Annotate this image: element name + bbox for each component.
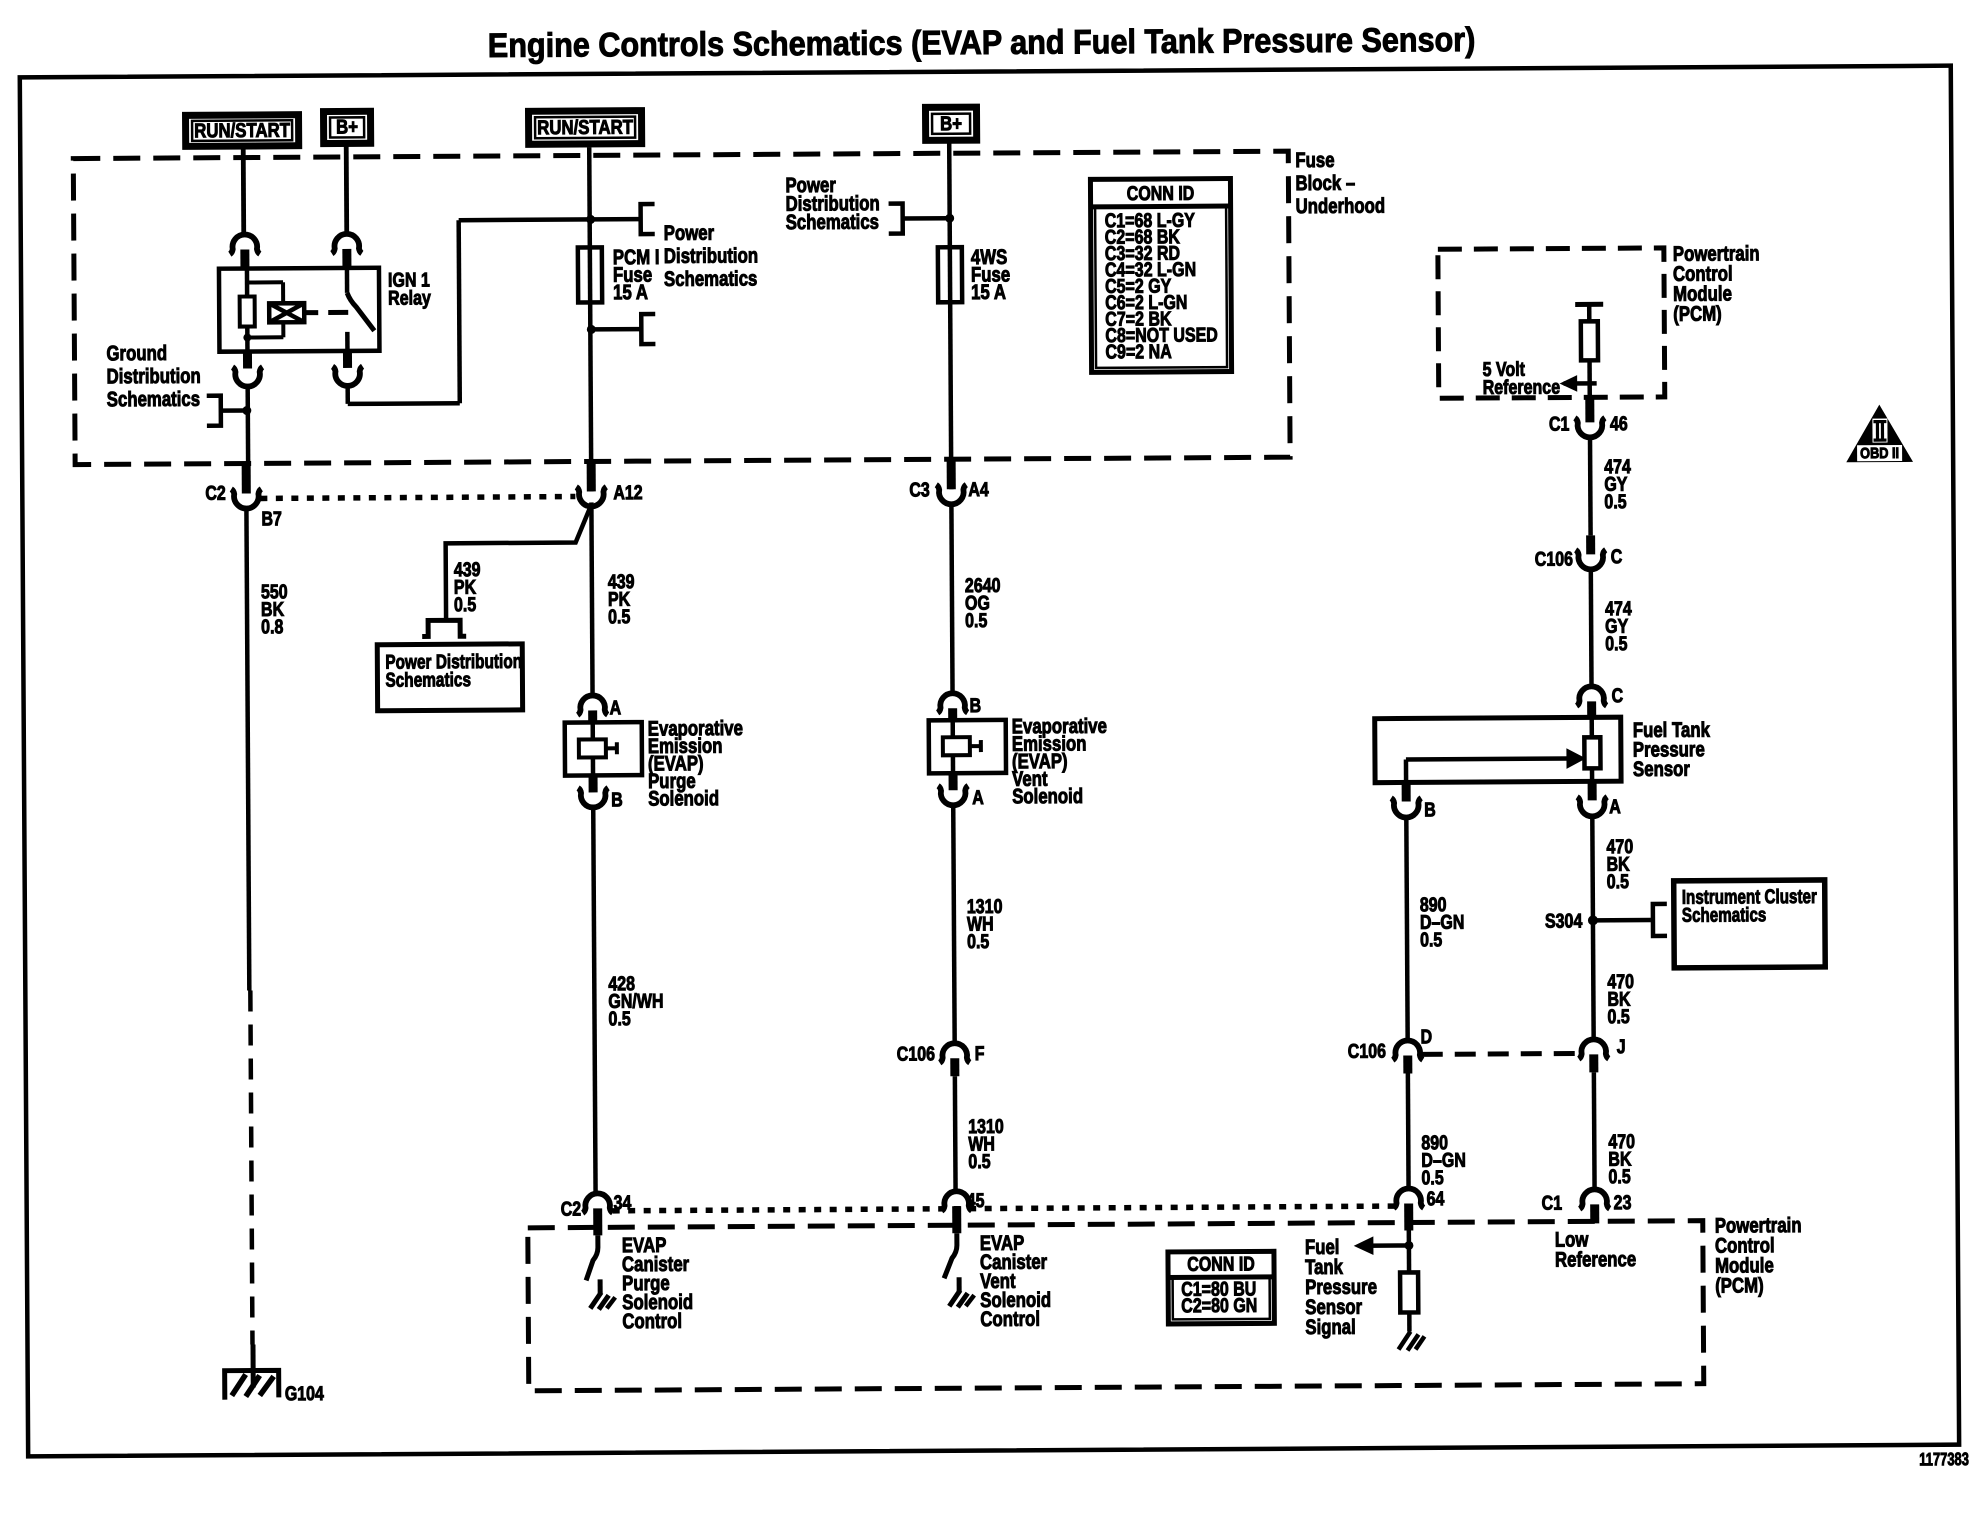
5 Volt Reference arrow <box>1564 381 1597 386</box>
wire relay B+ pin loop to PCM fuse feed <box>345 384 350 404</box>
EVAP canister vent solenoid control switch in PCM <box>944 1233 957 1278</box>
wire B+ (center) down through 4WS fuse <box>949 143 951 489</box>
svg-text:A: A <box>610 697 622 719</box>
svg-text:CONN ID: CONN ID <box>1127 182 1195 204</box>
connector C2 / 34 into PCM <box>583 1193 613 1213</box>
Powertrain Control Module (PCM) dashed box bottom <box>528 1221 1704 1391</box>
wire 474 GY lower <box>1589 567 1594 686</box>
connector C106 / D <box>1393 1040 1423 1060</box>
svg-text:RUN/START: RUN/START <box>194 118 291 141</box>
wire relay left pin down to fuse block edge <box>245 385 250 466</box>
staple connector into box <box>422 620 466 636</box>
svg-text:(PCM): (PCM) <box>1715 1275 1764 1298</box>
connector C1 / 23 into PCM <box>1580 1189 1610 1209</box>
svg-text:A12: A12 <box>613 481 642 503</box>
svg-text:G104: G104 <box>285 1382 324 1404</box>
svg-text:C106: C106 <box>1348 1040 1386 1062</box>
off-page bracket upper right of relay <box>641 204 655 234</box>
connector arc B below sensor <box>1402 783 1411 801</box>
EVAP purge solenoid box <box>565 722 642 775</box>
wire RUN/START (center) down through fuse <box>589 147 591 491</box>
dashed link C106 D to J <box>1422 1051 1580 1057</box>
connector arcs below relay <box>243 352 252 369</box>
svg-text:D: D <box>1421 1026 1433 1048</box>
power tag RUN/START (center) <box>529 111 642 145</box>
svg-text:A: A <box>972 786 984 808</box>
connector 64 into PCM <box>1394 1188 1424 1208</box>
svg-text:A: A <box>1609 796 1621 818</box>
svg-text:0.5: 0.5 <box>608 606 630 628</box>
svg-text:C1: C1 <box>1549 413 1570 435</box>
purge solenoid coil symbol <box>579 739 606 757</box>
lower off-page bracket from RUN/START column <box>591 327 641 332</box>
wire 470 BK from sensor A to S304 <box>1592 814 1593 1040</box>
ground inside PCM (purge driver) <box>598 1279 603 1293</box>
svg-text:CONN ID: CONN ID <box>1187 1253 1255 1275</box>
svg-text:Underhood: Underhood <box>1296 195 1386 219</box>
svg-text:1177383: 1177383 <box>1919 1450 1969 1470</box>
svg-text:Fuse: Fuse <box>1295 149 1334 172</box>
connector arc B below purge solenoid <box>589 775 598 792</box>
svg-text:Engine Controls Schematics (EV: Engine Controls Schematics (EVAP and Fue… <box>488 21 1476 65</box>
wire 1310 WH lower segment <box>953 1076 958 1192</box>
svg-text:0.5: 0.5 <box>1607 1005 1629 1027</box>
Fuse Block - Underhood dashed box <box>73 151 1290 464</box>
connector C1 / 46 <box>1585 399 1594 422</box>
connector arc A below sensor <box>1588 782 1597 800</box>
svg-text:B+: B+ <box>940 112 962 135</box>
svg-text:0.5: 0.5 <box>454 593 476 615</box>
ground G104 symbol <box>250 1345 255 1388</box>
off-page bracket to Power Distribution (top center) <box>889 204 903 234</box>
svg-text:C106: C106 <box>1535 548 1573 570</box>
svg-text:C9=2 NA: C9=2 NA <box>1105 340 1171 362</box>
svg-text:0.5: 0.5 <box>965 609 987 631</box>
svg-text:Control: Control <box>622 1310 682 1334</box>
Powertrain Control Module (PCM) dashed box top <box>1438 248 1665 398</box>
svg-text:0.5: 0.5 <box>1608 1165 1630 1187</box>
wire 474 GY upper <box>1588 435 1593 535</box>
svg-text:Schematics: Schematics <box>786 211 879 235</box>
svg-text:Reference: Reference <box>1555 1248 1636 1272</box>
Power Distribution Schematics box <box>377 644 522 711</box>
relay winding symbol (box with X) <box>269 303 304 322</box>
svg-text:15 A: 15 A <box>971 281 1006 304</box>
svg-text:0.5: 0.5 <box>1604 490 1626 512</box>
wire 1310 WH upper segment <box>953 803 954 1044</box>
5V supply tee bar <box>1575 302 1603 307</box>
pull-down resistor in PCM <box>1400 1272 1418 1312</box>
connector C2 / B7 at fuse block <box>242 466 251 494</box>
connector 45 into PCM <box>942 1191 972 1211</box>
4WS fuse 15 A <box>938 247 962 302</box>
svg-text:RUN/START: RUN/START <box>537 115 634 138</box>
connector arc A below vent solenoid <box>949 773 958 790</box>
svg-text:A4: A4 <box>968 478 989 500</box>
svg-text:B: B <box>970 694 982 716</box>
wire 428 GN/WH down <box>593 805 595 1194</box>
svg-text:0.5: 0.5 <box>1420 929 1442 951</box>
hidden wire segment to G104 (dashed) <box>250 991 252 1345</box>
CONN ID table (fuse block) <box>1090 179 1231 373</box>
ground inside PCM (signal) <box>1407 1312 1412 1331</box>
svg-text:Power: Power <box>664 222 715 245</box>
wire 470 BK lower <box>1592 1072 1597 1190</box>
svg-text:(PCM): (PCM) <box>1673 303 1722 326</box>
svg-text:C2=80 GN: C2=80 GN <box>1181 1294 1257 1317</box>
svg-text:C2: C2 <box>561 1198 582 1220</box>
fuel tank pressure sensor signal wire in PCM <box>1407 1230 1412 1272</box>
svg-text:C1: C1 <box>1542 1192 1563 1214</box>
relay actuator dashed link <box>304 310 318 315</box>
svg-text:Relay: Relay <box>388 287 431 309</box>
wire 890 D-GN lower <box>1406 1073 1411 1189</box>
relay switch lower contact <box>345 332 350 351</box>
splice S304 <box>1588 915 1598 925</box>
svg-text:0.5: 0.5 <box>968 1150 990 1172</box>
connector arc above relay (switch pin) <box>332 234 362 254</box>
connector arc B at vent solenoid <box>938 693 968 713</box>
svg-text:0.5: 0.5 <box>1421 1167 1443 1189</box>
svg-text:Block –: Block – <box>1295 172 1355 196</box>
svg-text:Signal: Signal <box>1305 1316 1356 1339</box>
svg-text:Schematics: Schematics <box>1682 903 1767 926</box>
power tag B+ (left) <box>324 111 371 143</box>
wire 550 BK down <box>246 507 249 991</box>
wire bracket to column <box>221 408 248 413</box>
power tag B+ (center) <box>925 107 976 140</box>
connector arc C at fuel tank pressure sensor <box>1577 686 1607 706</box>
connector A12 <box>576 487 606 507</box>
IGN 1 relay box <box>219 268 380 352</box>
connector arc A at purge solenoid <box>578 695 608 715</box>
off-page bracket to instrument cluster <box>1653 904 1667 936</box>
EVAP vent solenoid box <box>929 720 1006 773</box>
EVAP canister purge solenoid control switch in PCM <box>586 1235 598 1280</box>
wire S304 to instrument cluster bracket <box>1593 918 1651 923</box>
svg-text:Ground: Ground <box>106 342 167 366</box>
fuel tank pressure sensor box <box>1375 717 1621 782</box>
svg-text:Solenoid: Solenoid <box>648 787 719 811</box>
ground inside PCM (vent driver) <box>957 1277 962 1291</box>
svg-text:C3: C3 <box>909 479 930 501</box>
svg-text:Schematics: Schematics <box>664 268 757 292</box>
svg-text:OBD II: OBD II <box>1860 444 1899 461</box>
wire 2640 OG down <box>951 502 952 692</box>
svg-text:Solenoid: Solenoid <box>1012 785 1083 809</box>
wiper arrow inside sensor <box>1406 756 1568 761</box>
svg-text:Reference: Reference <box>1483 376 1561 399</box>
relay coil resistor <box>245 269 250 297</box>
relay coil loop wires <box>247 280 283 284</box>
svg-text:Distribution: Distribution <box>664 245 758 269</box>
svg-text:B: B <box>611 789 623 811</box>
svg-text:S304: S304 <box>1545 910 1583 932</box>
svg-text:J: J <box>1617 1035 1626 1057</box>
svg-text:0.8: 0.8 <box>261 616 283 638</box>
svg-text:B: B <box>1424 799 1436 821</box>
svg-text:C106: C106 <box>897 1043 935 1065</box>
relay coil bottom wire <box>245 327 250 352</box>
wire A12 down to purge solenoid <box>591 502 592 694</box>
relay switch blade <box>347 293 374 331</box>
svg-text:46: 46 <box>1610 412 1628 434</box>
PCM I fuse 15 A <box>578 247 602 302</box>
relay switch contact from B+ <box>345 268 350 293</box>
svg-text:15 A: 15 A <box>613 281 648 304</box>
vent solenoid coil symbol <box>943 737 970 755</box>
svg-text:0.5: 0.5 <box>1605 632 1627 654</box>
signal arrow to comparator <box>1363 1243 1409 1248</box>
wire 890 D-GN upper <box>1406 815 1407 1041</box>
wire B+ tag to relay switch pin <box>344 144 349 235</box>
svg-text:0.5: 0.5 <box>608 1008 630 1030</box>
svg-text:C: C <box>1611 546 1623 568</box>
off-page bracket to Ground Distribution <box>207 396 221 426</box>
svg-text:F: F <box>975 1042 985 1064</box>
connector C3 / A4 <box>947 461 956 489</box>
dotted harness line C2 to A12 <box>260 497 575 499</box>
Instrument Cluster Schematics box <box>1674 880 1826 968</box>
svg-text:Schematics: Schematics <box>385 668 471 691</box>
svg-text:0.5: 0.5 <box>967 930 989 952</box>
svg-text:C2: C2 <box>205 482 226 504</box>
OBD II symbol <box>1847 405 1912 461</box>
connector C106 / F <box>940 1043 970 1063</box>
connector arc above relay (left pin) <box>230 234 260 254</box>
svg-text:B+: B+ <box>336 115 358 138</box>
pull-up resistor in PCM <box>1587 304 1592 321</box>
svg-text:0.5: 0.5 <box>1607 870 1629 892</box>
power tag RUN/START (left) <box>186 115 299 147</box>
svg-text:23: 23 <box>1614 1191 1632 1213</box>
sensor element (potentiometer) <box>1584 737 1600 768</box>
svg-text:64: 64 <box>1427 1188 1445 1210</box>
svg-text:C: C <box>1612 685 1624 707</box>
connector C106 / C <box>1586 535 1595 554</box>
junction dot at RUN/START column <box>586 215 595 224</box>
svg-text:B7: B7 <box>261 508 282 530</box>
dotted harness line 34-45-64 <box>613 1206 1397 1211</box>
svg-text:Distribution: Distribution <box>107 365 201 389</box>
svg-text:Control: Control <box>980 1308 1040 1332</box>
branch wire to Power Distribution Schematics <box>445 504 592 620</box>
connector C106 / J <box>1579 1039 1609 1059</box>
CONN ID table (PCM) <box>1168 1251 1274 1324</box>
wire RUN/START tag to relay pin <box>241 150 246 236</box>
svg-text:Sensor: Sensor <box>1633 758 1691 782</box>
svg-text:Schematics: Schematics <box>107 388 200 412</box>
